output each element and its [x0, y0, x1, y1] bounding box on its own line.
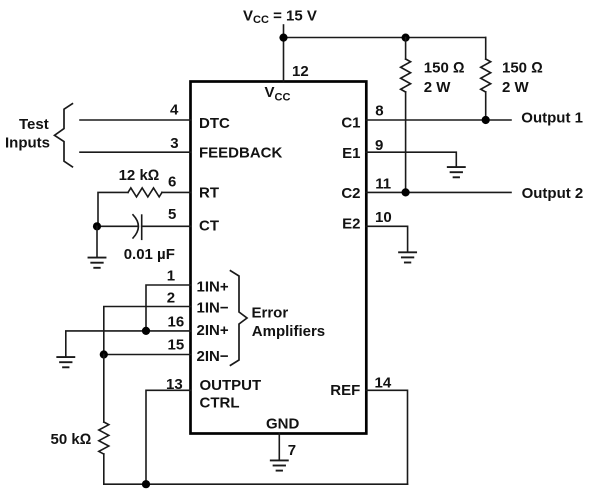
svg-text:2: 2 [167, 289, 175, 306]
svg-text:7: 7 [288, 442, 296, 459]
svg-text:4: 4 [170, 102, 179, 119]
svg-text:C2: C2 [341, 185, 360, 202]
svg-text:13: 13 [166, 376, 183, 393]
svg-text:Amplifiers: Amplifiers [252, 323, 325, 340]
svg-text:1IN+: 1IN+ [197, 279, 229, 296]
svg-text:3: 3 [170, 135, 178, 152]
wire pin 15 2IN- [104, 354, 191, 356]
svg-text:CTRL: CTRL [200, 395, 240, 412]
svg-text:2IN−: 2IN− [197, 348, 229, 365]
capacitor C3 0.01 uF [97, 215, 191, 240]
svg-text:8: 8 [375, 103, 383, 120]
junction Output 1 dot [482, 116, 490, 124]
svg-text:FEEDBACK: FEEDBACK [199, 145, 283, 162]
svg-text:Test: Test [19, 116, 49, 133]
resistor R3 12 kohm [98, 188, 191, 226]
svg-text:50 kΩ: 50 kΩ [51, 431, 92, 448]
svg-text:2IN+: 2IN+ [197, 322, 229, 339]
svg-text:VCC = 15 V: VCC = 15 V [243, 8, 317, 26]
ground (GND pin 7) [271, 460, 288, 470]
svg-text:Error: Error [252, 305, 289, 322]
IC U1 (PWM controller) body [191, 82, 367, 434]
ground (E2) [399, 252, 416, 262]
wire pin 13 OUTPUT CTRL [146, 390, 191, 484]
svg-text:E2: E2 [342, 216, 360, 233]
svg-text:CT: CT [199, 218, 219, 235]
svg-text:2 W: 2 W [502, 79, 530, 96]
wire pin 10 E2 to ground [366, 226, 407, 251]
wire pin 8 C1 to Output 1 [366, 119, 511, 121]
ground (CT) [89, 258, 106, 268]
svg-text:150 Ω: 150 Ω [502, 60, 543, 77]
svg-text:10: 10 [375, 209, 392, 226]
wire pin 16 2IN+ [66, 331, 191, 356]
wire pin 14 REF loop [366, 390, 407, 484]
svg-text:VCC: VCC [265, 84, 291, 104]
svg-text:150 Ω: 150 Ω [424, 60, 465, 77]
wire pin 12 to VCC node [283, 38, 285, 82]
wire pin 1 1IN+ [146, 285, 191, 331]
resistor R4 50 kohm [99, 355, 109, 485]
wire VCC top rail [284, 37, 486, 39]
svg-text:15: 15 [168, 337, 185, 354]
svg-text:RT: RT [199, 185, 219, 202]
junction C2 node dot [402, 188, 410, 196]
svg-text:16: 16 [168, 313, 185, 330]
svg-text:Output 1: Output 1 [521, 109, 583, 126]
junction 2IN- dot [100, 350, 108, 358]
brace test inputs [55, 104, 73, 167]
node VCC supply stub [283, 25, 285, 38]
svg-text:11: 11 [375, 175, 391, 192]
svg-text:E1: E1 [342, 145, 360, 162]
svg-text:1IN−: 1IN− [197, 299, 229, 316]
svg-text:REF: REF [330, 382, 360, 399]
svg-text:0.01 µF: 0.01 µF [124, 246, 175, 263]
svg-text:GND: GND [266, 415, 300, 432]
ground (E1) [448, 167, 465, 177]
junction CT node dot [93, 222, 101, 230]
junction 2IN+ dot [142, 327, 150, 335]
svg-text:OUTPUT: OUTPUT [200, 377, 262, 394]
junction top rail / R1 dot [402, 34, 410, 42]
wire pin 3 FEEDBACK test input [80, 151, 191, 153]
junction VCC node dot [279, 34, 287, 42]
svg-text:1: 1 [167, 268, 175, 285]
wire pin 9 E1 to ground [366, 152, 456, 166]
ground (2IN+) [57, 357, 74, 367]
wire CT node to ground [96, 226, 98, 256]
svg-text:DTC: DTC [199, 115, 230, 132]
svg-text:Output 2: Output 2 [522, 185, 584, 202]
brace error amplifiers [231, 271, 248, 366]
wire pin 11 C2 to Output 2 [366, 191, 511, 193]
wire bottom rail [104, 483, 408, 485]
svg-text:12: 12 [292, 63, 309, 80]
svg-text:C1: C1 [341, 114, 360, 131]
svg-text:12 kΩ: 12 kΩ [119, 167, 160, 184]
svg-text:6: 6 [168, 174, 176, 191]
junction bottom rail dot [142, 480, 150, 488]
svg-text:5: 5 [168, 206, 176, 223]
wire pin 2 1IN- [104, 307, 191, 355]
wire pin 7 GND [278, 434, 280, 460]
resistor R1 150 ohm 2W (left) [401, 38, 411, 193]
svg-text:9: 9 [375, 137, 383, 154]
svg-text:Inputs: Inputs [5, 135, 50, 152]
resistor R2 150 ohm 2W (right) [481, 38, 491, 121]
wire pin 4 DTC test input [80, 119, 191, 121]
svg-text:2 W: 2 W [424, 79, 452, 96]
svg-text:14: 14 [375, 374, 392, 391]
